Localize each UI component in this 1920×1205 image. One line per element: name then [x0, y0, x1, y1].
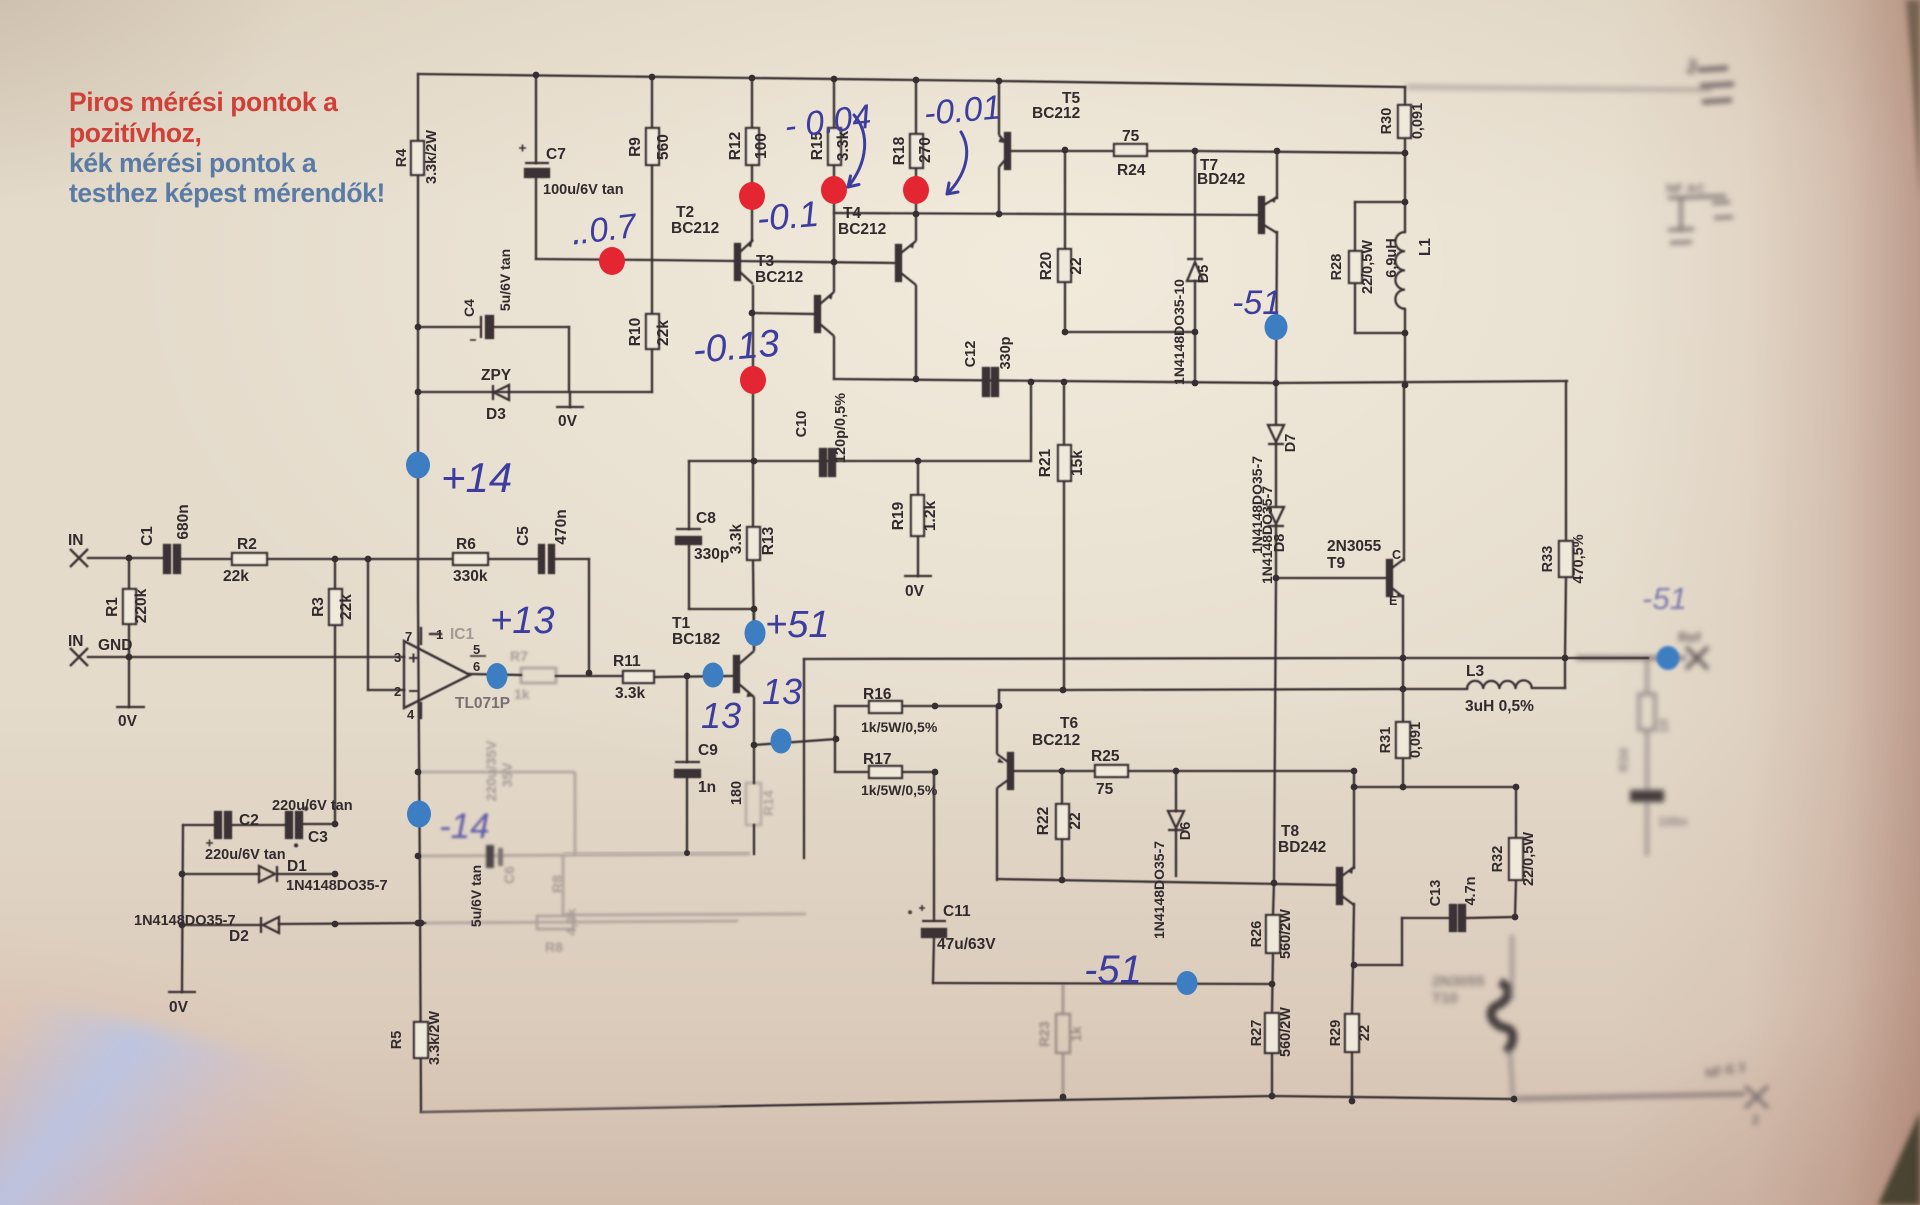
svg-text:2N3055: 2N3055: [1432, 973, 1485, 990]
svg-text:E: E: [1389, 594, 1397, 608]
svg-text:BC212: BC212: [1032, 105, 1080, 122]
svg-text:7: 7: [405, 629, 412, 644]
svg-text:R32: R32: [1490, 846, 1506, 873]
svg-text:C3: C3: [308, 829, 328, 846]
svg-text:T9: T9: [1327, 555, 1345, 572]
svg-text:5u/6V tan: 5u/6V tan: [497, 249, 513, 311]
svg-text:1N4148DO35-7: 1N4148DO35-7: [134, 913, 236, 929]
svg-text:22: 22: [1357, 1025, 1373, 1041]
svg-text:0V: 0V: [905, 583, 925, 600]
svg-text:100n: 100n: [1658, 814, 1688, 829]
svg-text:NF AC: NF AC: [1666, 181, 1706, 196]
svg-text:R17: R17: [863, 751, 891, 768]
svg-text:-0.1: -0.1: [755, 193, 820, 239]
svg-text:R24: R24: [1117, 162, 1146, 179]
svg-text:22k: 22k: [655, 320, 672, 346]
svg-text:22: 22: [1068, 257, 1085, 274]
svg-text:D8: D8: [1272, 534, 1288, 553]
svg-text:R16: R16: [863, 686, 892, 703]
svg-text:220u/6V tan: 220u/6V tan: [205, 847, 286, 863]
svg-text:R26: R26: [1249, 921, 1265, 948]
svg-text:C12: C12: [963, 341, 979, 368]
svg-text:1k: 1k: [1068, 1026, 1084, 1042]
svg-text:5: 5: [473, 642, 480, 657]
svg-text:T3: T3: [756, 253, 774, 270]
svg-text:100: 100: [753, 133, 770, 159]
svg-text:1n: 1n: [698, 779, 716, 796]
svg-text:C9: C9: [698, 742, 718, 759]
svg-text:ZPY: ZPY: [481, 367, 512, 384]
svg-text:R33: R33: [1540, 546, 1556, 573]
svg-text:pozitívhoz,: pozitívhoz,: [69, 118, 202, 148]
svg-text:R12: R12: [727, 132, 744, 160]
svg-text:3.3k: 3.3k: [728, 524, 745, 555]
svg-text:TL071P: TL071P: [455, 695, 510, 712]
svg-text:L3: L3: [1466, 663, 1484, 680]
svg-text:+14: +14: [441, 454, 512, 501]
svg-text:IN: IN: [68, 532, 84, 549]
svg-text:BC212: BC212: [755, 269, 803, 286]
svg-text:1.2k: 1.2k: [922, 501, 939, 532]
svg-text:-51: -51: [1084, 948, 1142, 992]
svg-text:testhez képest mérendők!: testhez képest mérendők!: [69, 178, 385, 208]
svg-text:1N4148DO35-10: 1N4148DO35-10: [1171, 279, 1187, 385]
svg-text:R4: R4: [394, 149, 410, 168]
svg-text:IC1: IC1: [450, 626, 475, 643]
svg-text:R22: R22: [1035, 807, 1052, 835]
svg-text:0,091: 0,091: [1408, 722, 1424, 758]
svg-text:R31: R31: [1378, 727, 1394, 754]
svg-text:22k: 22k: [223, 568, 249, 585]
svg-text:NF-E 2: NF-E 2: [1704, 1059, 1747, 1081]
svg-text:R30: R30: [1379, 108, 1395, 135]
svg-text:R5: R5: [389, 1031, 405, 1050]
svg-text:+13: +13: [490, 600, 554, 642]
svg-text:Piros mérési pontok a: Piros mérési pontok a: [69, 87, 338, 117]
svg-text:1k/5W/0,5%: 1k/5W/0,5%: [861, 782, 938, 798]
svg-text:C10: C10: [794, 411, 810, 438]
svg-text:10: 10: [1656, 719, 1671, 733]
svg-text:22/0,5W: 22/0,5W: [1360, 240, 1376, 294]
svg-text:R19: R19: [890, 501, 907, 530]
svg-text:Ref: Ref: [1678, 629, 1701, 645]
svg-text:0V: 0V: [169, 999, 189, 1016]
svg-text:-51: -51: [1642, 581, 1687, 616]
svg-text:1k/5W/0,5%: 1k/5W/0,5%: [861, 719, 938, 735]
svg-text:GND: GND: [98, 637, 132, 654]
svg-text:330k: 330k: [453, 568, 488, 585]
svg-text:220k: 220k: [133, 588, 150, 623]
svg-text:T1: T1: [672, 615, 690, 632]
svg-text:680n: 680n: [175, 504, 192, 539]
svg-text:D7: D7: [1283, 434, 1299, 453]
svg-text:BC212: BC212: [1032, 732, 1080, 749]
svg-text:15k: 15k: [1069, 450, 1086, 476]
svg-text:13: 13: [701, 695, 741, 736]
svg-text:5u/6V tan: 5u/6V tan: [468, 865, 484, 927]
svg-text:R18: R18: [891, 136, 908, 165]
svg-text:-14: -14: [439, 807, 490, 846]
svg-text:C: C: [1392, 548, 1401, 562]
svg-text:560: 560: [655, 134, 672, 160]
svg-text:120p/0,5%: 120p/0,5%: [833, 393, 849, 463]
svg-text:2: 2: [394, 684, 401, 699]
svg-text:-0.01: -0.01: [922, 88, 1003, 133]
svg-text:NF: NF: [1683, 56, 1703, 77]
svg-text:C2: C2: [239, 812, 259, 829]
svg-text:560/2W: 560/2W: [1278, 909, 1294, 959]
svg-text:220u/6V tan: 220u/6V tan: [272, 798, 353, 814]
svg-text:0V: 0V: [558, 413, 578, 430]
svg-text:D5: D5: [1196, 265, 1212, 284]
svg-text:22/0,5W: 22/0,5W: [1521, 832, 1537, 886]
svg-text:35V: 35V: [499, 762, 515, 788]
svg-text:75: 75: [1122, 128, 1140, 145]
svg-text:T8: T8: [1281, 823, 1299, 840]
svg-text:2: 2: [1752, 1112, 1759, 1127]
svg-text:330p: 330p: [694, 546, 729, 563]
svg-text:13: 13: [762, 671, 802, 712]
svg-text:22: 22: [1067, 812, 1084, 829]
svg-text:L1: L1: [1417, 238, 1434, 256]
svg-text:T6: T6: [1060, 715, 1078, 732]
svg-text:C11: C11: [943, 903, 971, 920]
svg-text:1k: 1k: [514, 686, 530, 702]
svg-text:R34: R34: [1616, 747, 1631, 772]
svg-text:R10: R10: [627, 318, 644, 346]
svg-text:C7: C7: [546, 146, 566, 163]
svg-text:220u/35V: 220u/35V: [483, 740, 499, 801]
svg-text:T4: T4: [843, 205, 861, 222]
svg-text:3.3k/2W: 3.3k/2W: [427, 1011, 443, 1065]
svg-text:6: 6: [473, 659, 480, 674]
svg-text:100u/6V tan: 100u/6V tan: [543, 182, 624, 198]
svg-text:R2: R2: [237, 536, 257, 553]
svg-text:4.7n: 4.7n: [1463, 876, 1479, 905]
svg-text:C8: C8: [696, 510, 716, 527]
svg-text:R11: R11: [613, 653, 641, 670]
svg-text:IN: IN: [68, 633, 84, 650]
svg-text:6,9uH: 6,9uH: [1384, 238, 1400, 278]
svg-text:47u/63V: 47u/63V: [937, 936, 996, 953]
svg-text:470n: 470n: [553, 509, 570, 544]
svg-text:C6: C6: [501, 866, 517, 884]
svg-text:470,5%: 470,5%: [1571, 534, 1587, 583]
svg-text:3: 3: [394, 650, 401, 665]
svg-text:3uH 0,5%: 3uH 0,5%: [1465, 698, 1534, 715]
svg-text:T10: T10: [1432, 990, 1458, 1007]
svg-text:22k: 22k: [338, 594, 355, 620]
svg-text:180: 180: [729, 781, 745, 805]
svg-text:C5: C5: [515, 526, 532, 546]
svg-text:4: 4: [407, 707, 415, 722]
svg-text:1: 1: [436, 627, 443, 642]
svg-text:1N4148DO35-7: 1N4148DO35-7: [1151, 841, 1167, 939]
svg-text:4,3k: 4,3k: [563, 908, 579, 935]
svg-text:330p: 330p: [998, 336, 1014, 369]
svg-text:3.3k/2W: 3.3k/2W: [424, 130, 440, 184]
svg-text:2N3055: 2N3055: [1327, 538, 1382, 555]
svg-text:kék mérési pontok a: kék mérési pontok a: [69, 148, 317, 178]
svg-text:R29: R29: [1328, 1020, 1344, 1047]
svg-text:R9: R9: [627, 137, 644, 157]
svg-text:D6: D6: [1178, 822, 1194, 841]
svg-text:BC212: BC212: [838, 221, 886, 238]
svg-text:R21: R21: [1037, 448, 1054, 477]
svg-text:D1: D1: [287, 858, 307, 875]
svg-text:R28: R28: [1329, 254, 1345, 281]
svg-text:C13: C13: [1428, 880, 1444, 907]
svg-text:D2: D2: [229, 928, 249, 945]
svg-text:R6: R6: [456, 536, 476, 553]
svg-text:D3: D3: [486, 406, 506, 423]
svg-text:270: 270: [917, 137, 934, 163]
svg-text:R13: R13: [760, 526, 777, 555]
svg-text:R8: R8: [545, 939, 563, 955]
svg-text:R8: R8: [549, 875, 565, 893]
svg-text:+51: +51: [765, 604, 829, 646]
svg-text:BC212: BC212: [671, 220, 719, 237]
svg-text:75: 75: [1096, 781, 1114, 798]
svg-text:1N4148DO35-7: 1N4148DO35-7: [286, 878, 388, 894]
svg-text:-0.13: -0.13: [691, 323, 781, 372]
svg-text:R23: R23: [1036, 1021, 1052, 1047]
svg-text:BD242: BD242: [1197, 171, 1245, 188]
svg-text:C4: C4: [461, 299, 477, 317]
svg-text:BC182: BC182: [672, 631, 720, 648]
svg-text:0,091: 0,091: [1410, 103, 1426, 139]
svg-text:R14: R14: [760, 790, 776, 816]
svg-text:BD242: BD242: [1278, 839, 1326, 856]
svg-text:560/2W: 560/2W: [1278, 1007, 1294, 1057]
svg-text:-51: -51: [1232, 284, 1281, 322]
svg-text:R7: R7: [510, 648, 528, 664]
svg-text:R1: R1: [104, 597, 121, 617]
svg-text:R3: R3: [310, 597, 327, 617]
svg-text:․.0.7: ․.0.7: [566, 207, 639, 253]
svg-text:C1: C1: [139, 526, 156, 546]
svg-text:R20: R20: [1038, 252, 1055, 280]
svg-text:T2: T2: [676, 204, 694, 221]
svg-text:R25: R25: [1091, 748, 1120, 765]
svg-text:0V: 0V: [118, 713, 138, 730]
svg-text:3.3k: 3.3k: [615, 685, 646, 702]
svg-text:R27: R27: [1249, 1020, 1265, 1047]
